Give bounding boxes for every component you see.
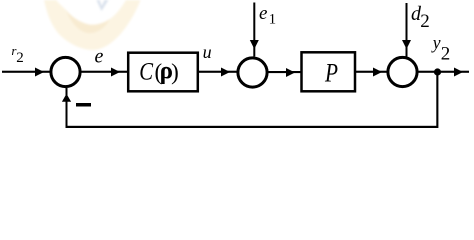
wire: output y2 [417,68,469,77]
label r2 [11,43,23,66]
wire: feedback path from junction dot to S1 (negative) [62,72,439,128]
svg-text:): ) [171,60,179,85]
svg-text:e: e [259,3,267,24]
svg-text:P: P [324,59,338,88]
svg-text:2: 2 [16,50,24,66]
svg-text:2: 2 [420,11,430,32]
summing junction S3 [388,57,417,86]
minus sign at feedback input of S1 [76,103,91,107]
wire: S2 to plant P [267,68,301,77]
wire: disturbance d2 input from top [402,3,411,57]
wire: disturbance e1 input from top [250,3,259,57]
wire: input r2 into summing junction S1 [2,68,51,77]
block C(rho) controller [128,53,198,92]
wire: S1 to controller C [81,68,127,77]
junction dot on output [434,68,441,75]
summing junction S2 [238,58,267,87]
svg-text:1: 1 [269,12,277,28]
label d2 [411,3,430,32]
label y2 [431,33,450,65]
wire: P to summing junction S3 [356,68,388,77]
svg-text:2: 2 [441,44,451,65]
summing junction S1 [51,57,80,86]
svg-text:e: e [95,46,104,68]
svg-text:y: y [431,33,441,53]
svg-text:u: u [203,42,212,62]
label e1 [259,3,276,28]
svg-text:C: C [139,58,153,85]
block P plant [302,52,356,91]
label C(rho) [139,58,179,86]
wire: C to summing junction S2 [199,68,238,77]
